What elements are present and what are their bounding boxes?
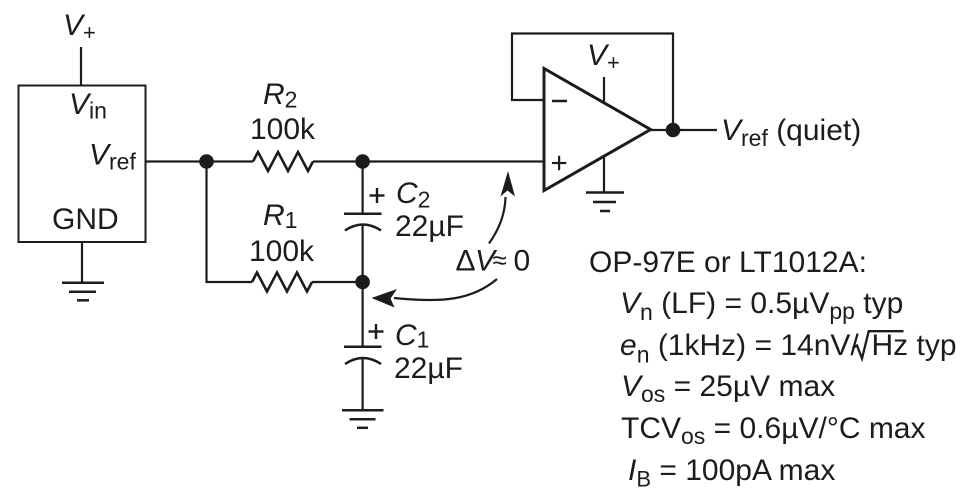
svg-text:22µF: 22µF [395,210,464,243]
svg-text:C2: C2 [396,177,430,213]
svg-text:TCVos = 0.6µV/°C max: TCVos = 0.6µV/°C max [621,412,926,449]
op-amp U1 triangle [544,69,651,191]
svg-text:Vref: Vref [89,139,136,175]
wire C1 bottom down [362,358,364,410]
voltage reference box U2 [19,86,146,243]
svg-text:100k: 100k [250,113,316,146]
svg-text:V+: V+ [587,39,620,75]
arrowhead up [501,171,516,197]
svg-text:GND: GND [52,203,119,236]
wire node to C2 top plate [362,162,364,214]
arrowhead left [372,289,398,308]
svg-text:Vn (LF) = 0.5µVpp typ: Vn (LF) = 0.5µVpp typ [620,287,903,325]
capacitor C2 plus polarity mark [370,188,385,203]
wire Vref output of box to R2 [146,160,254,162]
svg-text:≈: ≈ [493,245,507,275]
svg-text:Vos = 25µV max: Vos = 25µV max [621,370,835,407]
wire V+ to box top [80,47,82,86]
wire R1 to node B [312,281,363,283]
svg-text:Δ: Δ [456,245,476,278]
svg-text:Vin: Vin [69,88,107,124]
resistor R2 body [253,152,313,171]
feedback wire (output to - input) [512,34,673,131]
wire box GND pin down [81,242,83,283]
node B (R1/C1/C2) junction dot [355,275,370,290]
svg-text:R2: R2 [263,78,297,113]
node (R2/C2/+input) junction dot [355,154,370,169]
svg-text:22µF: 22µF [394,352,463,385]
wire node B to C1 top plate [362,282,364,346]
ground (op-amp) [586,193,624,212]
op-amp minus input marker [552,100,567,103]
op-amp V+ supply wire [603,77,605,103]
resistor R1 body [252,273,312,292]
capacitor C1 plates [344,347,382,364]
svg-text:V+: V+ [63,9,96,45]
svg-text:Hz typ: Hz typ [872,329,957,362]
curved arrow up to + input wire [489,197,506,244]
wire R2 to op-amp + input [313,160,544,162]
sqrt radical (drawn) [853,331,904,358]
svg-text:OP-97E or LT1012A:: OP-97E or LT1012A: [589,246,867,279]
curved arrow down-left to node B [394,279,497,300]
svg-text:100k: 100k [249,235,315,268]
svg-text:Vref (quiet): Vref (quiet) [721,114,861,151]
svg-text:IB = 100pA max: IB = 100pA max [628,454,835,492]
capacitor C1 plus polarity mark [369,324,384,339]
output node junction dot [666,123,681,138]
svg-text:R1: R1 [263,199,297,233]
ground (below C1) [342,410,384,428]
ground (below reference box) [62,283,104,301]
wire C2 bottom to node B [362,225,364,283]
node A junction dot [199,154,214,169]
op-amp plus input marker [552,156,566,170]
capacitor C2 plates [344,214,382,231]
wire node A down to R1 level [207,162,253,283]
svg-text:C1: C1 [395,319,429,353]
svg-text:0: 0 [514,245,531,278]
op-amp ground pin wire [603,156,605,192]
output wire [651,129,717,131]
svg-text:en (1kHz) = 14nV/: en (1kHz) = 14nV/ [620,329,859,368]
